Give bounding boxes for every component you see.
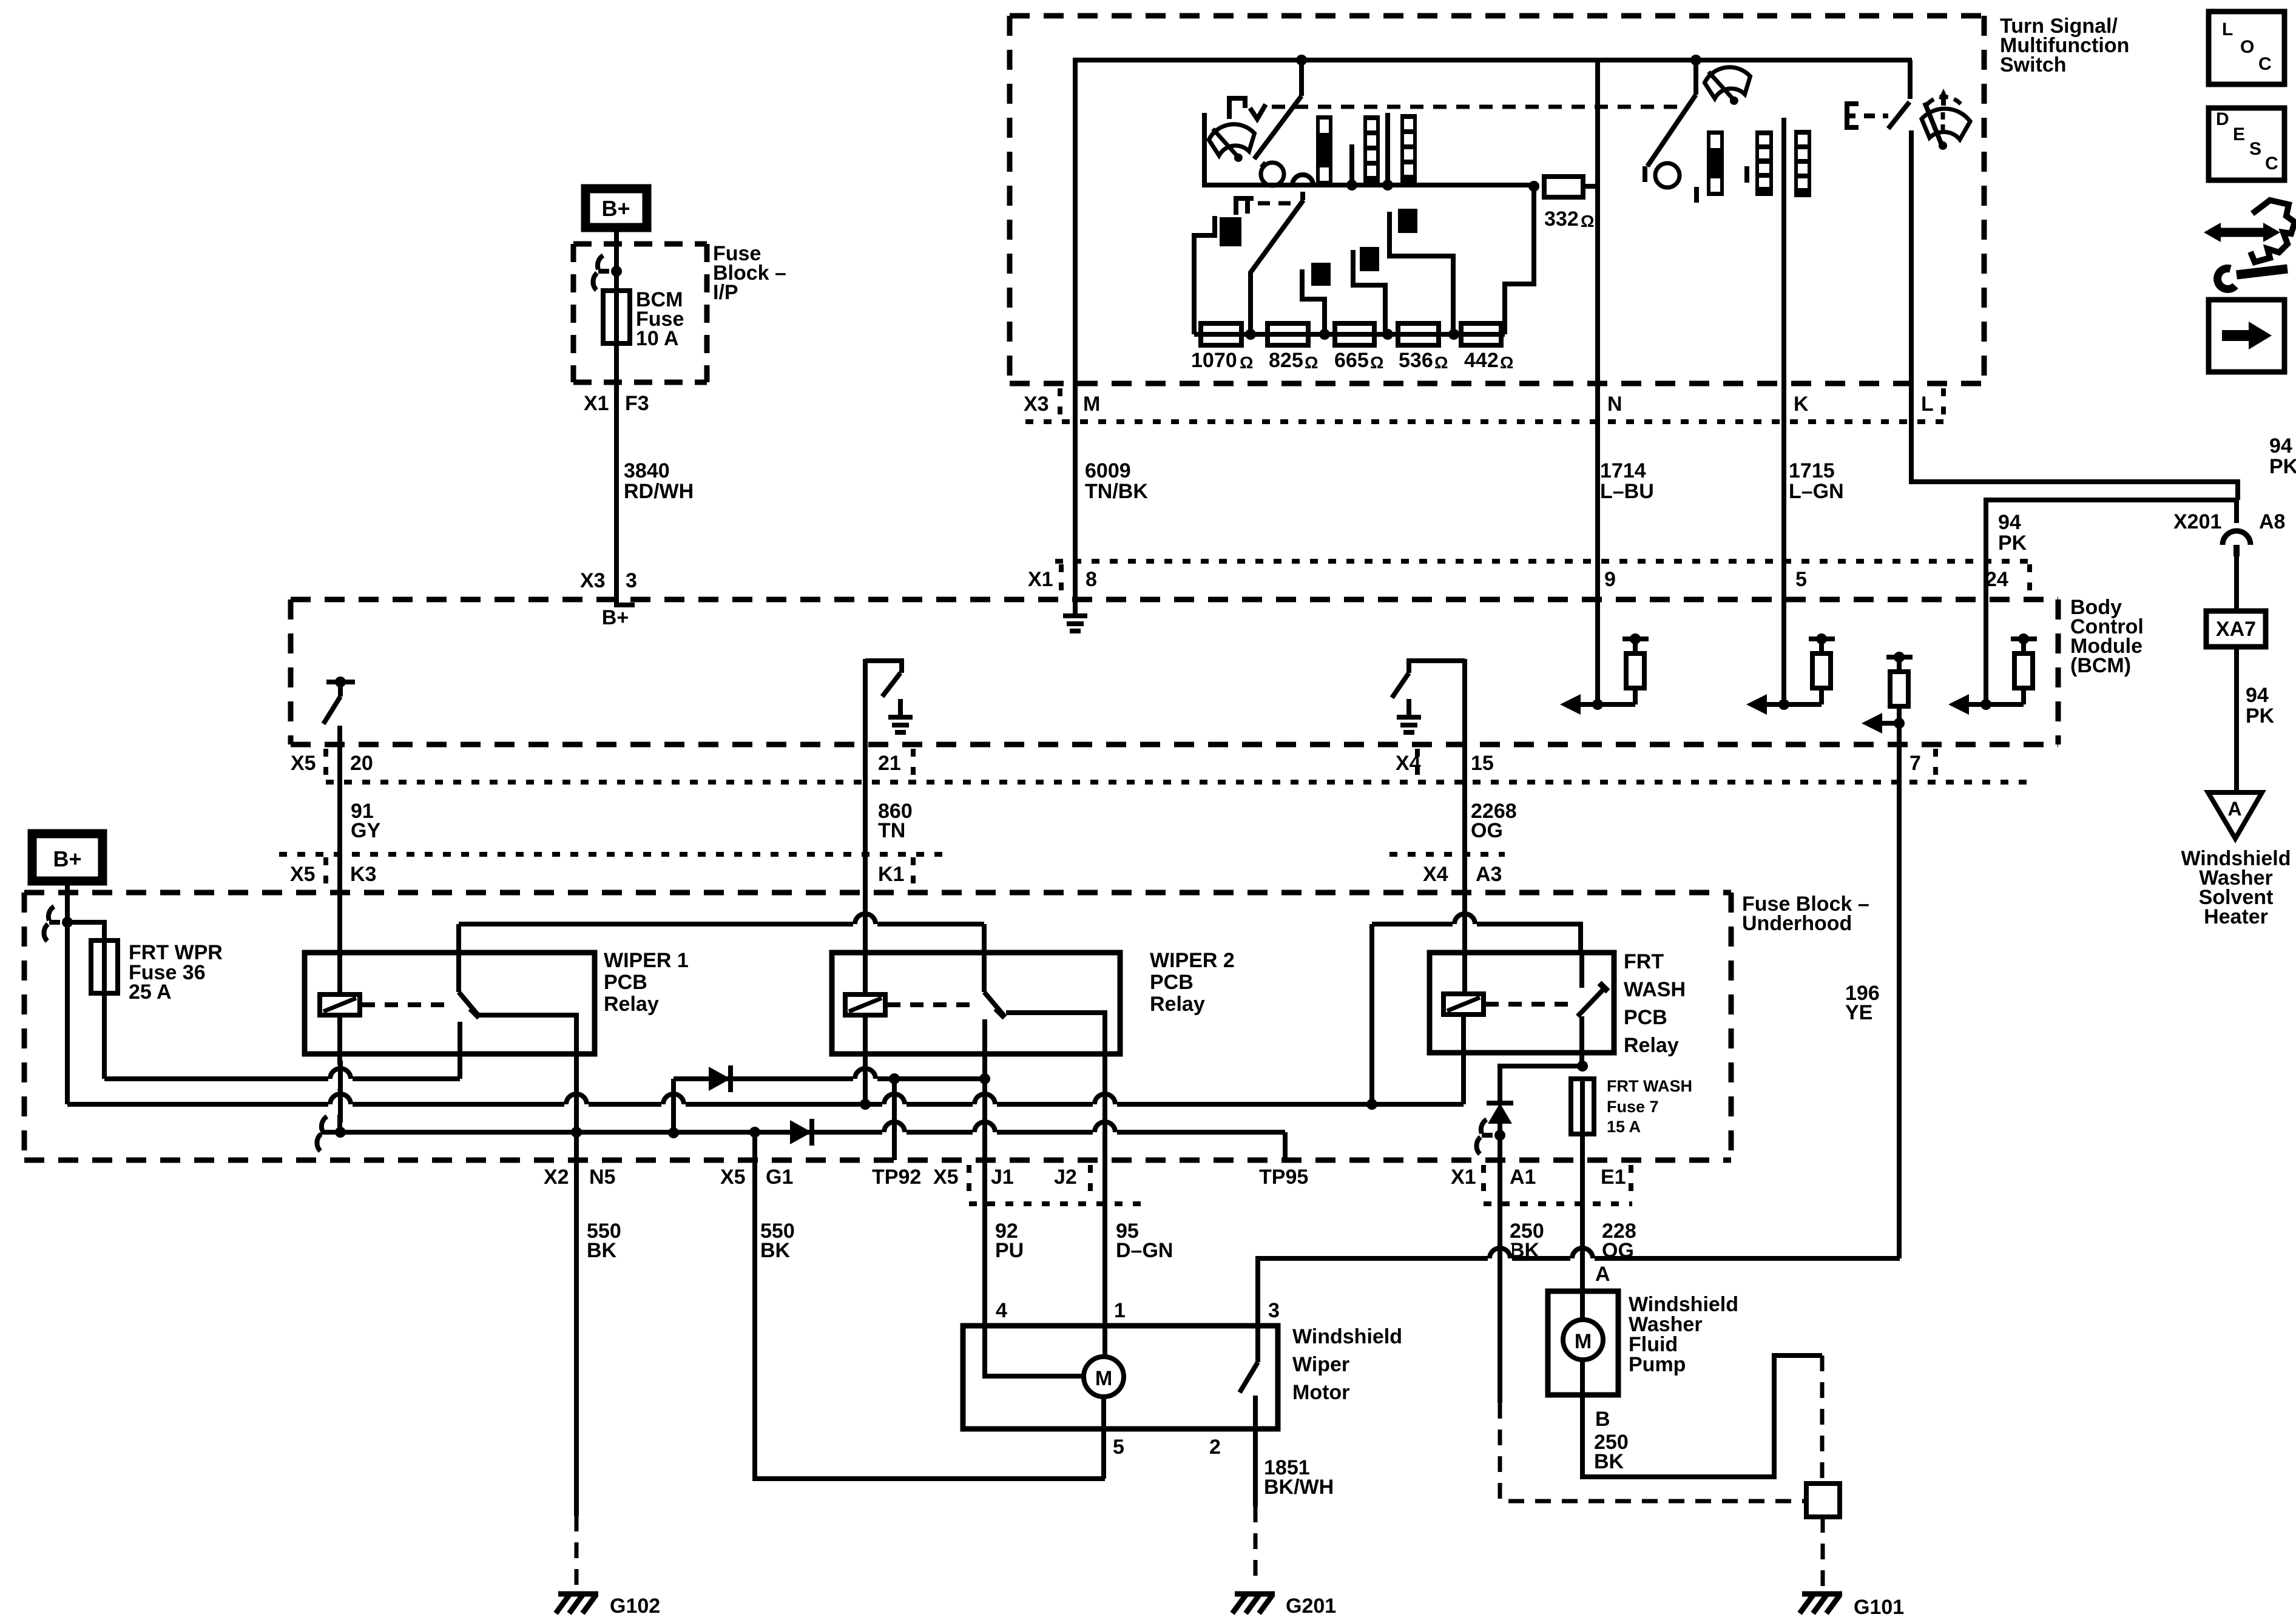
hop H3 over J2 xyxy=(1093,1118,1117,1143)
svg-text:X5: X5 xyxy=(290,863,316,886)
hop H2a over relay1 coil xyxy=(328,1065,353,1089)
label 8 xyxy=(1086,568,1097,591)
contact pad 2 xyxy=(1311,263,1331,286)
wire 2268 up xyxy=(1462,659,1467,744)
wire TP92 stub xyxy=(892,1079,897,1160)
wire relay2 output J1 xyxy=(982,1019,987,1326)
node ladder 2 xyxy=(1319,329,1330,340)
svg-text:2: 2 xyxy=(1209,1436,1221,1459)
separator J2 xyxy=(1088,1165,1093,1201)
wire N down xyxy=(1595,186,1600,383)
wire grommet to G101 dashed xyxy=(1821,1517,1825,1590)
wire A1 down xyxy=(1497,1120,1502,1160)
svg-text:BK: BK xyxy=(760,1239,791,1262)
separator E1 xyxy=(1629,1165,1633,1201)
svg-text:FRT: FRT xyxy=(1624,950,1664,973)
wire relay1 coil feed xyxy=(337,893,342,994)
svg-text:15 A: 15 A xyxy=(1607,1118,1641,1136)
linkage dashes 2 xyxy=(1258,201,1294,206)
wire pumpB dashed to grommet xyxy=(1820,1355,1825,1484)
svg-text:G1: G1 xyxy=(766,1166,793,1189)
wire A1 dashed to grommet xyxy=(1500,1403,1806,1501)
svg-text:BK: BK xyxy=(1594,1450,1624,1473)
node common-bar B xyxy=(1346,180,1357,191)
wire relay1 coil return xyxy=(337,1015,342,1132)
relay3 coil xyxy=(1443,994,1484,1014)
svg-text:332: 332 xyxy=(1544,208,1579,231)
label 860 TN xyxy=(878,800,913,842)
svg-text:X3: X3 xyxy=(1024,393,1049,416)
label X4 15 xyxy=(1396,752,1494,775)
svg-text:9: 9 xyxy=(1604,568,1616,591)
clip at fuse 36 xyxy=(44,906,60,941)
intermittent bracket 2 xyxy=(1236,198,1254,215)
svg-text:S: S xyxy=(2249,139,2261,159)
node BCM fuse feed xyxy=(611,266,622,277)
wire K down xyxy=(1781,118,1786,383)
svg-text:665: 665 xyxy=(1334,349,1369,372)
label X3 b xyxy=(580,569,606,592)
label 442 ohm xyxy=(1464,349,1513,372)
label TP95 xyxy=(1259,1166,1308,1189)
wire pump B down xyxy=(1582,1355,1822,1477)
driver output at BCM pin 5 xyxy=(1746,633,1835,715)
wire motor pin2 down xyxy=(1253,1429,1258,1507)
bus H3 ground xyxy=(320,1130,1285,1135)
wire motor pin3 feed xyxy=(1258,1258,1900,1326)
label N xyxy=(1607,393,1622,416)
bus H2a segment B xyxy=(674,1076,985,1081)
wire to fuse36 xyxy=(67,922,104,940)
separator 21 xyxy=(911,749,916,785)
connector row X1 dotted line xyxy=(1055,559,2030,564)
separator K1 xyxy=(911,857,916,891)
svg-text:A3: A3 xyxy=(1476,863,1502,886)
label 1715 L-GN xyxy=(1789,459,1844,503)
label 95 D-GN xyxy=(1116,1220,1173,1262)
resistor 536 ohm xyxy=(1398,323,1439,345)
svg-text:Underhood: Underhood xyxy=(1742,912,1852,935)
wire pump internal top xyxy=(1580,1291,1585,1320)
svg-text:Ω: Ω xyxy=(1240,353,1253,372)
detent bar B xyxy=(1363,115,1380,185)
label X5 K3 xyxy=(290,863,376,886)
connector XA7 box xyxy=(2206,611,2266,647)
wire 1714 L-BU xyxy=(1595,383,1600,598)
svg-text:WASH: WASH xyxy=(1624,978,1686,1001)
svg-text:Pump: Pump xyxy=(1629,1353,1686,1376)
contact dashes E xyxy=(1864,113,1888,118)
label X5 J1 xyxy=(933,1166,1014,1189)
wire motor pin1 internal xyxy=(1102,1326,1107,1357)
hop H3 over J1 xyxy=(973,1118,997,1143)
diode on H3 xyxy=(790,1119,812,1146)
svg-text:L: L xyxy=(1921,393,1934,416)
resistor 825 ohm xyxy=(1268,323,1308,345)
wiper icon (low speed) xyxy=(1207,121,1258,166)
hop H2b over relay1 coil xyxy=(328,1090,353,1115)
label 332 ohm xyxy=(1544,208,1594,231)
svg-text:X5: X5 xyxy=(933,1166,959,1189)
wire E1 228 OG down xyxy=(1580,1160,1585,1291)
label E1 xyxy=(1601,1166,1626,1189)
svg-text:K: K xyxy=(1794,393,1809,416)
node A1 xyxy=(1494,1130,1505,1141)
contact tick left of hub xyxy=(1261,163,1266,167)
Windshield Wiper Motor box xyxy=(963,1326,1278,1429)
label 550 BK (G1) xyxy=(760,1220,795,1262)
wire pin20 down xyxy=(337,726,342,744)
node H3 link xyxy=(668,1127,679,1138)
relay2 coil xyxy=(845,994,885,1015)
svg-text:X2: X2 xyxy=(544,1166,569,1189)
label 1070 ohm xyxy=(1191,349,1253,372)
svg-text:Relay: Relay xyxy=(604,993,659,1016)
fuse FRT WPR Fuse36 25A xyxy=(91,940,118,993)
svg-text:OG: OG xyxy=(1471,819,1503,842)
label Turn Signal/Multifunction Switch xyxy=(2000,15,2129,76)
svg-text:536: 536 xyxy=(1399,349,1433,372)
svg-text:O: O xyxy=(2240,37,2254,57)
wire 196 YE long xyxy=(1897,744,1902,1258)
svg-text:Relay: Relay xyxy=(1150,993,1205,1016)
svg-text:Ω: Ω xyxy=(1305,353,1318,372)
wire 94 PK from L xyxy=(1911,383,2238,500)
hop H1a over 860TN xyxy=(853,910,877,934)
contact pad 4 xyxy=(1398,209,1417,233)
svg-text:X1: X1 xyxy=(584,392,609,415)
wire ladder right staircase xyxy=(1505,186,1534,334)
label 91 GY xyxy=(351,800,380,842)
wire L down xyxy=(1909,130,1914,383)
svg-text:5: 5 xyxy=(1795,568,1807,591)
label 94 PK at 24 xyxy=(1998,511,2027,555)
wire XA7 to heater xyxy=(2234,647,2239,792)
connector row K3 dotted xyxy=(279,852,1505,857)
wire 1851 dashed xyxy=(1254,1507,1258,1578)
label 9 xyxy=(1604,568,1616,591)
relay WIPER1 box xyxy=(305,953,595,1054)
hop H2b over TP92 xyxy=(882,1090,907,1115)
label 6009 TN/BK xyxy=(1085,459,1148,503)
label Windshield Washer Fluid Pump xyxy=(1629,1293,1738,1376)
label L xyxy=(1921,393,1934,416)
wire B+ to bus xyxy=(65,881,70,1104)
label 94 PK top right xyxy=(2269,434,2296,478)
svg-text:1: 1 xyxy=(1114,1299,1126,1322)
svg-text:1070: 1070 xyxy=(1191,349,1237,372)
wire pump internal bottom xyxy=(1580,1360,1585,1395)
mist icon dashed arc xyxy=(1927,97,1961,104)
wire 2268 OG xyxy=(1462,744,1467,893)
svg-text:A8: A8 xyxy=(2259,510,2285,533)
label B+ inside BCM xyxy=(602,606,629,629)
resistor 665 ohm xyxy=(1335,323,1374,345)
label 2268 OG xyxy=(1471,800,1517,842)
svg-text:X1: X1 xyxy=(1028,568,1053,591)
wire H1b to relay3 xyxy=(1372,924,1581,1104)
svg-text:A: A xyxy=(1595,1263,1610,1286)
DESC icon box xyxy=(2209,108,2284,180)
hop H2b over J2 xyxy=(1093,1090,1117,1115)
Fuse Block I/P dashed box xyxy=(573,244,707,382)
svg-text:RD/WH: RD/WH xyxy=(624,480,694,503)
wire pin5 inside xyxy=(1781,598,1786,704)
label 250 BK (A1) xyxy=(1510,1220,1544,1262)
svg-text:X3: X3 xyxy=(580,569,606,592)
svg-text:PCB: PCB xyxy=(1624,1006,1667,1029)
switch blade S4 (mist) xyxy=(1888,60,1910,129)
relay1 NC contact stub xyxy=(458,1022,462,1079)
relay WIPER2 box xyxy=(832,953,1120,1054)
wire pad2 to ladder xyxy=(1302,269,1325,334)
svg-text:GY: GY xyxy=(351,819,380,842)
svg-text:X4: X4 xyxy=(1396,752,1421,775)
wire 6009 TN/BK xyxy=(1073,383,1078,598)
node ladder 4 xyxy=(1448,329,1459,340)
connector row bottom dotted xyxy=(969,1201,1632,1206)
svg-text:6009: 6009 xyxy=(1085,459,1131,482)
wire pad3 to ladder xyxy=(1353,250,1385,334)
wire A8 to XA7 xyxy=(2234,556,2239,611)
node H2b relay2 coil return xyxy=(860,1099,871,1110)
wire 860 TN xyxy=(863,744,868,893)
mechanical linkage dashed xyxy=(1272,105,1688,109)
node relay3 output junction xyxy=(1577,1061,1588,1072)
svg-text:F3: F3 xyxy=(625,392,649,415)
mist wiper fan xyxy=(1922,103,1970,150)
node top-rail junction 1 xyxy=(1296,55,1307,66)
diagnostic icon (car+wrench) xyxy=(2204,200,2295,289)
bar D stub xyxy=(1694,187,1699,203)
svg-text:1715: 1715 xyxy=(1789,459,1835,482)
wire motor pin5 down xyxy=(1101,1429,1106,1479)
wire relay3 output xyxy=(1579,1016,1584,1066)
node H3 relay1 out xyxy=(571,1127,582,1138)
svg-text:3: 3 xyxy=(626,569,637,592)
bar A stub xyxy=(1349,144,1354,185)
svg-text:15: 15 xyxy=(1471,752,1494,775)
svg-text:TP92: TP92 xyxy=(872,1166,921,1189)
svg-text:3840: 3840 xyxy=(624,459,670,482)
separator 24 xyxy=(2027,564,2032,601)
wire N5 dashed xyxy=(575,1516,579,1587)
label 7 xyxy=(1909,752,1921,775)
label pin 5 xyxy=(1113,1436,1124,1459)
wire relay2 common xyxy=(982,924,987,992)
relay1 blade xyxy=(459,992,479,1018)
svg-text:24: 24 xyxy=(1985,568,2008,591)
svg-text:B: B xyxy=(1595,1408,1610,1431)
svg-text:Switch: Switch xyxy=(2000,53,2067,76)
switch at BCM pin 15 xyxy=(1392,661,1465,698)
svg-text:L–GN: L–GN xyxy=(1789,480,1844,503)
svg-text:C: C xyxy=(2265,154,2278,174)
svg-text:B+: B+ xyxy=(53,846,81,871)
wire relay1 output xyxy=(479,1015,576,1131)
hop on common line over selector stem xyxy=(1292,175,1313,185)
arrow icon box xyxy=(2209,300,2284,372)
detent bar C xyxy=(1400,114,1417,184)
svg-text:I/P: I/P xyxy=(713,281,738,304)
svg-text:Ω: Ω xyxy=(1581,212,1594,231)
node ladder 3 xyxy=(1382,329,1393,340)
wire relay3 coil feed xyxy=(1462,893,1467,995)
pump M circle xyxy=(1563,1320,1603,1360)
svg-text:21: 21 xyxy=(878,752,901,775)
label B pump xyxy=(1595,1408,1610,1431)
node H2b relay3 branch xyxy=(1366,1099,1377,1110)
wire pin8 stub xyxy=(1073,598,1078,601)
svg-text:X5: X5 xyxy=(291,752,316,775)
relay3 blade xyxy=(1578,983,1608,1016)
svg-text:BK/WH: BK/WH xyxy=(1264,1476,1334,1499)
wire 332 to top rail xyxy=(1583,60,1598,186)
hop H2a over relay2 coil xyxy=(853,1065,877,1089)
separator 7 xyxy=(1933,749,1938,785)
svg-text:E1: E1 xyxy=(1601,1166,1626,1189)
label Windshield Wiper Motor xyxy=(1292,1325,1402,1404)
bar E tick xyxy=(1744,166,1749,183)
B+ terminal box lower xyxy=(32,834,103,881)
svg-text:Wiper: Wiper xyxy=(1292,1353,1349,1376)
label 550 BK (N5) xyxy=(587,1220,621,1262)
node H2a J1 end xyxy=(979,1073,990,1084)
svg-text:TN/BK: TN/BK xyxy=(1085,480,1148,503)
wire fuse36 to H2a xyxy=(102,993,107,1079)
contact pad 3 xyxy=(1360,247,1379,271)
svg-text:PK: PK xyxy=(2246,704,2275,727)
label X2 N5 xyxy=(544,1166,615,1189)
relay2 blade xyxy=(984,992,1005,1018)
label X5 G1 xyxy=(720,1166,793,1189)
contact tick S3 xyxy=(1643,166,1647,182)
svg-text:25 A: 25 A xyxy=(129,981,172,1004)
svg-text:442: 442 xyxy=(1464,349,1499,372)
selector blade S2 xyxy=(1251,200,1303,334)
separator X5-20 xyxy=(323,749,328,785)
label M xyxy=(1083,393,1100,416)
svg-text:X1: X1 xyxy=(1451,1166,1476,1189)
wire N5 550 BK xyxy=(574,1132,579,1516)
svg-text:PCB: PCB xyxy=(604,971,647,994)
wire X201 stub xyxy=(2234,500,2239,523)
svg-text:K3: K3 xyxy=(350,863,376,886)
label FRT WPR Fuse 36 25A xyxy=(129,941,223,1004)
relay3 linkage dashed xyxy=(1485,1002,1573,1007)
svg-text:Relay: Relay xyxy=(1624,1034,1679,1057)
ground G102 xyxy=(556,1594,660,1617)
driver output at BCM pin 24 xyxy=(1948,633,2037,715)
label WIPER 1 PCB Relay xyxy=(604,949,689,1016)
svg-text:J1: J1 xyxy=(991,1166,1014,1189)
label 24 xyxy=(1985,568,2008,591)
wire crossings through hops xyxy=(340,906,1582,1277)
ground at BCM pin 8 xyxy=(1063,598,1087,631)
ground at BCM pin 15 xyxy=(1397,699,1421,732)
fixed contact E xyxy=(1847,104,1859,127)
svg-text:N5: N5 xyxy=(589,1166,615,1189)
svg-text:PU: PU xyxy=(995,1239,1024,1262)
hub circle 2 xyxy=(1655,163,1680,187)
wire relay2 coil feed xyxy=(863,893,868,994)
bus H2a fused segment A xyxy=(104,1076,460,1081)
svg-text:TN: TN xyxy=(878,819,905,842)
svg-text:G102: G102 xyxy=(610,1595,660,1617)
svg-text:825: 825 xyxy=(1269,349,1303,372)
wire H3 TP95 drop xyxy=(1283,1132,1288,1160)
svg-text:Heater: Heater xyxy=(2204,905,2268,928)
label A8 xyxy=(2259,510,2285,533)
wire 91 GY xyxy=(337,744,342,893)
svg-text:94: 94 xyxy=(1998,511,2021,534)
node H2a TP92 xyxy=(889,1073,900,1084)
label 1851 BK/WH xyxy=(1264,1456,1334,1499)
label 21 xyxy=(878,752,901,775)
svg-text:PK: PK xyxy=(1998,532,2027,555)
resistor 442 ohm xyxy=(1461,323,1501,345)
svg-text:10 A: 10 A xyxy=(636,327,679,350)
driver output at BCM pin 9 xyxy=(1560,633,1649,715)
Body Control Module dashed box xyxy=(291,599,2058,744)
bar C left rail xyxy=(1385,113,1390,185)
clip at H3 left xyxy=(317,1116,333,1151)
label 825 ohm xyxy=(1269,349,1318,372)
label 228 OG xyxy=(1602,1220,1636,1262)
node ladder 1 xyxy=(1245,329,1256,340)
label X201 xyxy=(2173,510,2221,533)
relay FRT WASH box xyxy=(1430,953,1614,1053)
contact pad 1 xyxy=(1220,217,1241,246)
label 250 BK pump xyxy=(1594,1431,1629,1473)
LOC icon box xyxy=(2209,12,2284,84)
selector stem xyxy=(1300,192,1305,200)
svg-text:G201: G201 xyxy=(1286,1595,1336,1617)
svg-text:Ω: Ω xyxy=(1370,353,1383,372)
Fuse Block Underhood dashed box xyxy=(24,893,1731,1160)
wire pin24 inside xyxy=(1984,598,1988,705)
separator X1-A1 xyxy=(1481,1165,1486,1201)
detent bar A xyxy=(1316,115,1332,185)
label 665 ohm xyxy=(1334,349,1383,372)
relay2 linkage dashed xyxy=(887,1002,976,1007)
svg-text:A: A xyxy=(2227,798,2241,820)
svg-text:PCB: PCB xyxy=(1150,971,1194,994)
svg-text:BK: BK xyxy=(587,1239,617,1262)
wire H2b up to relay3 coil xyxy=(1461,1015,1466,1104)
svg-text:8: 8 xyxy=(1086,568,1097,591)
svg-text:J2: J2 xyxy=(1054,1166,1077,1189)
node 332 junction xyxy=(1528,181,1539,192)
node common-bar C xyxy=(1382,180,1393,191)
wire link H2a-H3 xyxy=(671,1079,676,1133)
label 92 PU xyxy=(995,1220,1024,1262)
label X4 A3 xyxy=(1423,863,1502,886)
label X1 A1 xyxy=(1451,1166,1536,1189)
wire 196YE to motor feed xyxy=(1897,1256,1902,1261)
ground at BCM pin 21 xyxy=(888,699,913,732)
label K1 xyxy=(878,863,904,886)
svg-text:M: M xyxy=(1083,393,1100,416)
separator X4-15 xyxy=(1415,749,1420,785)
wire 250BK A1 down xyxy=(1497,1160,1502,1403)
wire 94 PK to pin 24 xyxy=(1986,500,2237,598)
connector row X3 dotted line xyxy=(1025,419,1947,424)
diode on H2a xyxy=(709,1065,731,1092)
separator X3 xyxy=(1058,388,1062,425)
label Fuse Block I/P xyxy=(713,242,786,304)
resistor 332 ohm xyxy=(1544,177,1583,197)
